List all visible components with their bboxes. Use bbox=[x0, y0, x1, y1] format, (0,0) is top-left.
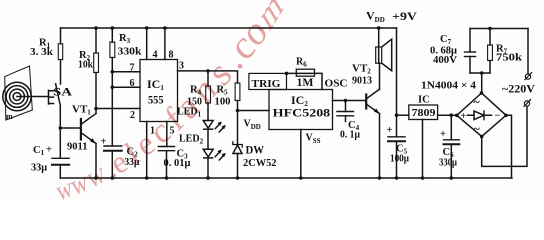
microphone BM bbox=[3, 66, 33, 120]
svg-text:~: ~ bbox=[474, 122, 481, 136]
resistor R4 bbox=[206, 86, 211, 103]
LED LED1 bbox=[203, 121, 225, 133]
wire VDD pin IC2 bbox=[238, 110, 270, 112]
svg-text:2CW52: 2CW52 bbox=[243, 157, 277, 169]
svg-text:1: 1 bbox=[150, 126, 155, 137]
resistor R5 bbox=[235, 83, 240, 101]
wire R2 top bbox=[95, 28, 97, 53]
junction R3 rail bbox=[111, 26, 115, 30]
wire VSS bbox=[300, 130, 302, 179]
wire VT2 collector to speaker bbox=[379, 63, 381, 89]
capacitor C6 bbox=[444, 115, 460, 178]
svg-text:+: + bbox=[101, 137, 107, 148]
speaker BL bbox=[376, 28, 392, 71]
resistor R1 bbox=[58, 44, 62, 60]
bridge rectifier 1N4004x4 bbox=[455, 91, 508, 138]
svg-text:5: 5 bbox=[170, 126, 175, 137]
junction C4 tap bbox=[344, 99, 348, 103]
svg-text:+: + bbox=[440, 129, 446, 140]
IC2 TRIG pin box bbox=[249, 73, 287, 89]
wire pin1 bbox=[146, 122, 148, 179]
IC 7809 regulator box bbox=[409, 105, 438, 120]
wire LED1 to LED2 bbox=[207, 129, 209, 149]
wire pin5 bbox=[166, 122, 168, 147]
junction pin6 bbox=[111, 85, 115, 89]
zener diode DW bbox=[233, 142, 242, 178]
junction pin8 rail bbox=[163, 26, 167, 30]
junction C5 ground bbox=[395, 176, 399, 180]
junction C2 ground bbox=[111, 176, 115, 180]
switch SA lever bbox=[56, 84, 61, 106]
svg-text:10k: 10k bbox=[78, 59, 94, 71]
junction 7809 ground bbox=[421, 176, 425, 180]
wire terminal 2 to bridge bottom bbox=[482, 106, 527, 166]
svg-text:400V: 400V bbox=[433, 54, 457, 66]
capacitor C4 bbox=[337, 101, 354, 122]
junction R7 top bbox=[488, 27, 492, 31]
junction VT2 emitter ground bbox=[378, 176, 382, 180]
resistor R2 bbox=[94, 53, 99, 73]
svg-text:SA: SA bbox=[53, 87, 73, 99]
transistor VT2 bbox=[366, 89, 379, 113]
capacitor C7 bbox=[465, 29, 476, 74]
wire base bbox=[60, 127, 80, 129]
wire IC2 out to VT2 base bbox=[333, 100, 366, 102]
wire bridge right to ground bbox=[506, 115, 512, 178]
svg-text:~: ~ bbox=[474, 95, 481, 109]
wire 7809 input bbox=[438, 114, 457, 116]
svg-text:330k: 330k bbox=[118, 46, 143, 58]
wire R4 to LED1 bbox=[207, 103, 209, 121]
svg-text:+: + bbox=[46, 145, 52, 156]
junction DW ground bbox=[236, 176, 240, 180]
wire 7809 output bbox=[397, 114, 409, 116]
svg-text:9013: 9013 bbox=[352, 75, 372, 87]
wire VDD rail bbox=[61, 27, 397, 29]
svg-text:7809: 7809 bbox=[412, 107, 437, 119]
junction R2 rail bbox=[94, 26, 98, 30]
junction C7R7 bottom bbox=[480, 71, 484, 75]
junction collector pin2 bbox=[94, 107, 98, 111]
junction base node bbox=[59, 126, 63, 130]
resistor R7 bbox=[488, 29, 493, 74]
svg-text:3. 3k: 3. 3k bbox=[30, 46, 54, 58]
junction LED2 ground bbox=[206, 176, 210, 180]
svg-text:8: 8 bbox=[169, 50, 174, 61]
IC2 HFC5208 box bbox=[269, 90, 333, 130]
svg-text:TRIG: TRIG bbox=[252, 78, 281, 90]
terminal 1 bbox=[525, 73, 532, 80]
wire C7R7 bottom bbox=[470, 72, 490, 74]
svg-text:1M: 1M bbox=[297, 77, 314, 89]
wire pin7 bbox=[112, 71, 140, 73]
svg-text:33μ: 33μ bbox=[31, 162, 48, 174]
svg-text:OSC: OSC bbox=[325, 78, 348, 90]
junction R4 top bbox=[206, 69, 210, 73]
svg-text:~220V: ~220V bbox=[502, 84, 536, 96]
junction pin7 bbox=[111, 70, 115, 74]
svg-text:100μ: 100μ bbox=[390, 153, 410, 165]
wire ground rail bbox=[61, 177, 513, 179]
wire R3 column bbox=[111, 28, 113, 146]
wire VT1 emitter column bbox=[95, 144, 97, 179]
junction C5 node bbox=[395, 113, 399, 117]
junction speaker rail bbox=[377, 26, 381, 30]
svg-text:330μ: 330μ bbox=[439, 157, 458, 169]
wire base node column bbox=[59, 106, 61, 158]
svg-text:DW: DW bbox=[246, 145, 265, 157]
svg-text:9011: 9011 bbox=[67, 141, 88, 153]
plug E bbox=[49, 90, 54, 104]
junction R5 node bbox=[236, 109, 240, 113]
resistor R3 bbox=[110, 42, 115, 57]
svg-text:7: 7 bbox=[130, 63, 135, 74]
wire mains terminal 1 bbox=[527, 29, 529, 74]
svg-text:+: + bbox=[387, 125, 393, 136]
wire pin6 bbox=[112, 86, 140, 88]
junction VSS ground bbox=[299, 176, 303, 180]
capacitor C3 bbox=[158, 147, 174, 179]
wire R1 column upper bbox=[60, 28, 62, 84]
svg-text:−: − bbox=[495, 111, 501, 122]
svg-text:0. 01μ: 0. 01μ bbox=[164, 157, 192, 169]
wire C7R7 top bbox=[470, 28, 528, 30]
LED LED2 bbox=[203, 149, 225, 160]
svg-text:6: 6 bbox=[130, 78, 135, 89]
svg-text:m: m bbox=[6, 112, 13, 121]
junction C6 node bbox=[450, 113, 454, 117]
wire mic to plug bbox=[17, 96, 49, 98]
svg-text:IC: IC bbox=[418, 95, 430, 106]
svg-text:1N4004 × 4: 1N4004 × 4 bbox=[421, 80, 477, 92]
wire R4 top bbox=[207, 71, 209, 86]
junction TRIG corner bbox=[285, 72, 289, 76]
wire pin4 bbox=[146, 28, 148, 60]
svg-text:750k: 750k bbox=[496, 52, 523, 64]
svg-text:3: 3 bbox=[179, 61, 184, 72]
capacitor C1 bbox=[52, 158, 69, 178]
wire TRIG to OSC bbox=[287, 73, 323, 89]
capacitor C5 bbox=[388, 115, 405, 178]
wire VT2 emitter to ground bbox=[379, 114, 381, 178]
junction pin4 rail bbox=[145, 26, 149, 30]
svg-text:555: 555 bbox=[148, 95, 164, 107]
svg-text:33μ: 33μ bbox=[124, 156, 140, 168]
wire rail drop to 7809 output bbox=[396, 28, 398, 115]
wire 7809 ground pin bbox=[422, 120, 424, 179]
terminal 2 bbox=[524, 100, 531, 107]
svg-text:0. 1μ: 0. 1μ bbox=[340, 129, 361, 141]
wire bridge top to C7R7 bbox=[481, 73, 483, 93]
junction VT1 emitter at ground bbox=[94, 176, 98, 180]
svg-text:HFC5208: HFC5208 bbox=[273, 108, 331, 120]
svg-text:4: 4 bbox=[153, 50, 158, 61]
svg-text:2: 2 bbox=[130, 110, 135, 121]
junction C6 ground bbox=[450, 176, 454, 180]
svg-text:+9V: +9V bbox=[392, 9, 417, 23]
capacitor C2 bbox=[104, 146, 122, 178]
wire VT1 collector column bbox=[95, 73, 97, 114]
wire pin3 bbox=[178, 71, 238, 83]
wire pin8 bbox=[164, 28, 166, 60]
wire pin2 bbox=[96, 108, 140, 110]
transistor VT1 bbox=[81, 114, 96, 144]
junction pin1 ground bbox=[145, 176, 149, 180]
svg-text:100: 100 bbox=[215, 96, 231, 108]
junction C3 ground bbox=[165, 176, 169, 180]
svg-text:+: + bbox=[461, 111, 467, 122]
wire R5 bottom node bbox=[237, 101, 239, 145]
IC IC1 555 box bbox=[140, 60, 178, 122]
resistor R6 bbox=[296, 69, 314, 76]
wire LED2 to ground bbox=[207, 158, 209, 178]
